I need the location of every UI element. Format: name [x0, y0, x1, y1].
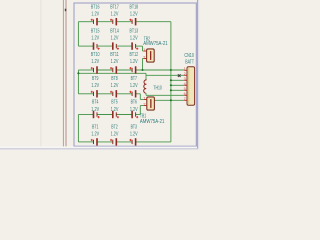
svg-text:1.2V: 1.2V [91, 12, 99, 18]
junction bus pin4 [170, 84, 172, 86]
svg-text:1: 1 [143, 96, 145, 100]
svg-text:1.2V: 1.2V [130, 12, 138, 18]
svg-text:1.2V: 1.2V [91, 131, 99, 137]
wire row2 seg2 [97, 45, 113, 47]
svg-text:TH10: TH10 [153, 85, 161, 91]
svg-text:1.2V: 1.2V [91, 83, 99, 89]
window edge bottom [0, 147, 197, 149]
svg-text:BT8: BT8 [111, 76, 117, 82]
battery BT8 [110, 76, 119, 97]
wire TH10 to connector pin6 [146, 94, 184, 96]
battery BT2 [110, 125, 119, 146]
wire TH10 top [145, 73, 147, 80]
battery BT9 [91, 76, 100, 97]
frame tick mark [65, 9, 67, 12]
svg-text:AMW75A-21: AMW75A-21 [140, 119, 165, 125]
wire bus to pin3 [171, 79, 184, 81]
wire row4 seg2 [97, 93, 113, 95]
battery BT17 [110, 5, 119, 26]
battery BT15 [91, 28, 100, 49]
wire bus to pin4 [171, 84, 184, 86]
svg-text:2: 2 [184, 72, 186, 76]
battery BT12 [129, 52, 138, 74]
red frame line left [63, 0, 64, 146]
svg-text:1.2V: 1.2V [111, 12, 119, 18]
svg-text:1.2V: 1.2V [111, 35, 119, 41]
wire TB1 right to connector pin7 [154, 99, 184, 101]
junction midpoint tap [77, 72, 79, 74]
svg-text:1.2V: 1.2V [91, 107, 99, 113]
wire row3 seg4 [136, 69, 185, 71]
svg-text:BT14: BT14 [110, 28, 119, 34]
wire row6 seg4 [136, 141, 171, 143]
battery BT10 [91, 52, 100, 74]
wire row1 seg2 [97, 21, 113, 23]
thermistor TH10 [144, 80, 162, 93]
wire row1 seg4 [136, 21, 171, 23]
svg-text:BT15: BT15 [91, 28, 100, 34]
wire row2 seg1 [78, 45, 93, 47]
svg-text:1.2V: 1.2V [130, 83, 138, 89]
battery BT3 [129, 125, 138, 146]
breaker TB1 [140, 96, 165, 125]
svg-text:BT5: BT5 [111, 100, 117, 106]
no-connect X pin2 [178, 74, 181, 77]
battery BT14 [110, 28, 119, 49]
wire row5 seg1 [78, 114, 93, 116]
wire row2 seg3 [116, 45, 132, 47]
battery BT13 [130, 28, 139, 49]
svg-text:AMW75A-21: AMW75A-21 [143, 41, 168, 47]
wire U-turn row1-row2 [77, 22, 79, 46]
svg-text:1.2V: 1.2V [130, 59, 138, 65]
wire TB2 pin1 stub [143, 50, 147, 52]
svg-text:3: 3 [184, 77, 186, 81]
wire row2 seg4 [136, 45, 143, 47]
wire TB2 pin2 drop [142, 59, 144, 71]
svg-text:BT16: BT16 [91, 5, 100, 11]
battery BT18 [129, 5, 138, 26]
faint column line of outer frame [39, 0, 42, 146]
svg-text:BT9: BT9 [92, 76, 98, 82]
junction bus pin7 [170, 99, 172, 101]
battery BT1 [91, 125, 100, 146]
svg-text:BT7: BT7 [131, 76, 137, 82]
svg-text:BT18: BT18 [130, 5, 139, 11]
svg-text:BT4: BT4 [92, 100, 98, 106]
wire row4 seg3 [116, 93, 132, 95]
svg-text:1.2V: 1.2V [130, 131, 138, 137]
svg-text:2: 2 [143, 55, 145, 59]
wire row4 seg4 [136, 93, 141, 95]
svg-text:1.2V: 1.2V [130, 107, 138, 113]
red frame line right [66, 0, 67, 146]
wire row6 seg2 [97, 141, 113, 143]
wire TH10 bottom [145, 93, 147, 95]
svg-text:CN10: CN10 [184, 53, 194, 59]
wire TB2 pin1 drop [142, 46, 144, 51]
svg-text:BT6: BT6 [131, 100, 137, 106]
svg-text:5: 5 [184, 87, 186, 91]
svg-text:1.2V: 1.2V [91, 35, 99, 41]
wire right bus [170, 22, 172, 142]
battery BT4 [91, 100, 99, 119]
window edge right [197, 0, 198, 148]
wire row3 seg1 [78, 69, 93, 71]
junction bus pin5 [170, 89, 172, 91]
svg-text:1: 1 [143, 48, 145, 52]
wire row1 seg1 [78, 21, 93, 23]
svg-text:BT17: BT17 [110, 5, 119, 11]
svg-text:1.2V: 1.2V [111, 83, 119, 89]
wire TB2 pin2 stub [143, 58, 147, 60]
svg-text:7: 7 [184, 97, 186, 101]
svg-text:BT2: BT2 [111, 125, 117, 131]
wire TB1 pin1 drop [139, 94, 141, 100]
svg-text:1.2V: 1.2V [130, 35, 138, 41]
wire row3 seg2 [97, 69, 113, 71]
svg-text:1.2V: 1.2V [111, 107, 119, 113]
svg-text:BATT: BATT [185, 59, 194, 65]
wire row5 seg4 [136, 114, 141, 116]
battery BT6 [130, 100, 138, 119]
wire bus to pin5 [171, 89, 184, 91]
wire TB1 pin1 stub [140, 99, 147, 101]
svg-text:BT13: BT13 [130, 28, 139, 34]
wire row5 seg2 [97, 114, 113, 116]
svg-text:6: 6 [184, 92, 186, 96]
svg-text:BT3: BT3 [131, 125, 137, 131]
battery BT7 [129, 76, 138, 97]
wire TB1 pin2 drop [139, 106, 141, 115]
wire midpoint tap [78, 72, 146, 74]
connector CN10 [184, 53, 195, 105]
wire TB1 pin2 stub [140, 105, 147, 107]
wire U-turn row5-row6 [77, 115, 79, 142]
svg-text:BT10: BT10 [91, 52, 100, 58]
battery BT5 [111, 100, 119, 119]
svg-text:1.2V: 1.2V [111, 59, 119, 65]
wire row1 seg3 [116, 21, 132, 23]
svg-text:BT11: BT11 [110, 52, 119, 58]
junction bus pin3 [170, 79, 172, 81]
svg-text:BT1: BT1 [92, 125, 98, 131]
svg-text:2: 2 [143, 102, 145, 106]
wire row3 seg3 [116, 69, 132, 71]
wire U-turn row3-row4 [77, 70, 79, 94]
svg-text:1.2V: 1.2V [111, 131, 119, 137]
svg-text:4: 4 [184, 82, 186, 86]
wire row5 seg3 [116, 114, 132, 116]
svg-text:1: 1 [184, 67, 186, 71]
sheet border [74, 3, 196, 146]
junction TB2 pin2 / row3 [141, 69, 143, 71]
breaker TB2 [143, 37, 168, 62]
wire row6 seg3 [116, 141, 132, 143]
battery BT11 [110, 52, 119, 74]
wire to connector pin2 [146, 74, 184, 76]
junction bus / row3 / pin1 [170, 69, 172, 71]
wire row4 seg1 [78, 93, 93, 95]
svg-text:BT12: BT12 [130, 52, 139, 58]
svg-text:1.2V: 1.2V [91, 59, 99, 65]
battery BT16 [91, 5, 100, 26]
wire row6 seg1 [78, 141, 93, 143]
